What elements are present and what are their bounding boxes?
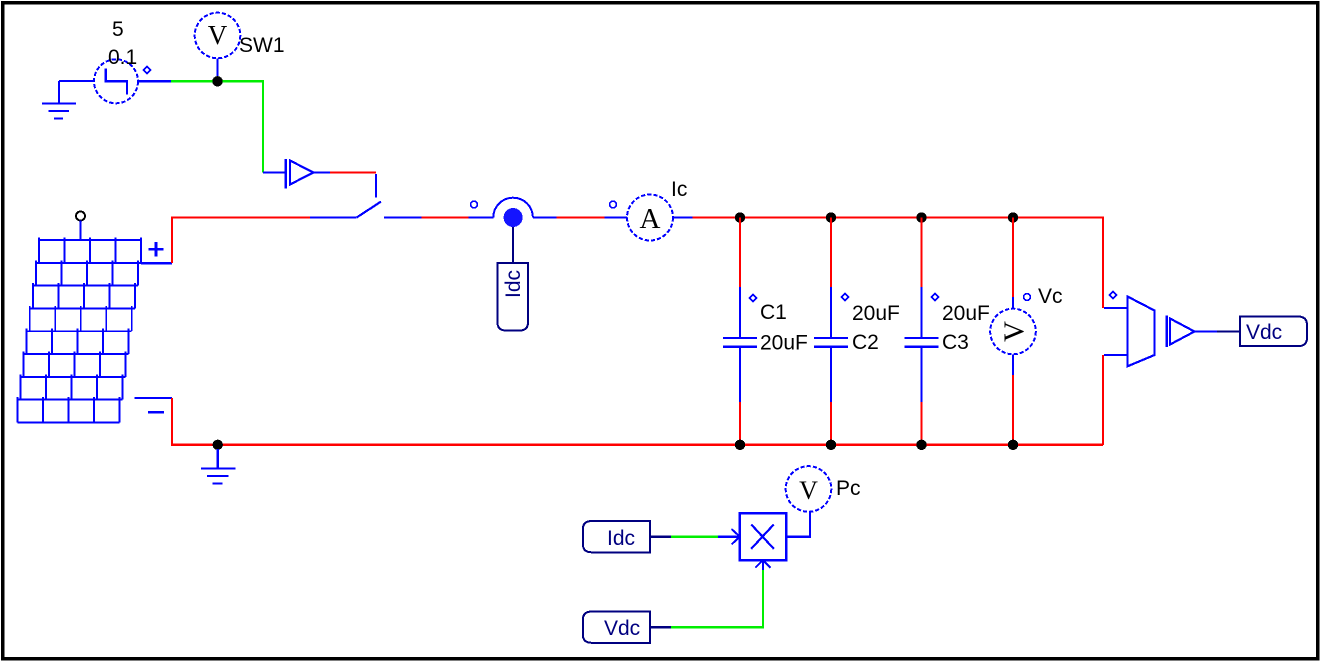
wire Vdc to multiplier green (671, 570, 763, 627)
wire: plus lead up to top rail (172, 218, 310, 264)
switch SW right contact lead (384, 216, 422, 218)
junction top C2 (826, 212, 836, 222)
sensor to Idc probe wire (512, 227, 514, 263)
green control wire from source (171, 81, 263, 172)
svg-text:20uF: 20uF (942, 302, 990, 325)
marker circle near ammeter (610, 201, 617, 208)
wire Idc to multiplier navy (650, 536, 671, 538)
svg-text:20uF: 20uF (852, 302, 900, 325)
junction ground (213, 440, 223, 450)
lead step source output (138, 80, 171, 82)
voltage sensor trapezoid (1104, 297, 1155, 367)
junction top Vc (1008, 212, 1018, 222)
marker diamond near sensor (1110, 292, 1117, 299)
capacitor C3 (905, 218, 939, 446)
junction node under SW1 meter (212, 76, 222, 86)
ammeter right lead (673, 216, 692, 218)
ground G1 (top-left) (42, 81, 76, 119)
marker circle near Vc (1024, 294, 1031, 301)
voltmeter Vc branch (990, 218, 1036, 446)
PV minus lead (135, 397, 172, 399)
current sensor right lead (533, 216, 557, 218)
wire sensor to ammeter (557, 216, 605, 218)
PV plus lead (141, 262, 172, 264)
wire Idc into multiplier blue (718, 536, 740, 538)
svg-text:Idc: Idc (607, 527, 635, 550)
minus sign (148, 411, 164, 414)
wire ground to step source (59, 80, 94, 82)
svg-text:Vdc: Vdc (1246, 321, 1282, 344)
Vdc source label box (583, 612, 650, 643)
arrow into multiplier left (732, 529, 740, 544)
PV solar panel array (17, 238, 141, 423)
voltmeter SW1 (195, 13, 241, 81)
svg-text:Vdc: Vdc (604, 617, 640, 640)
svg-text:Ic: Ic (671, 178, 687, 201)
wire Vdc into multiplier blue (762, 560, 764, 570)
buffer U1 (286, 159, 314, 188)
svg-text:Idc: Idc (502, 270, 525, 298)
junction bottom C3 (916, 440, 926, 450)
Idc current probe label box (497, 263, 528, 331)
svg-text:SW1: SW1 (239, 34, 285, 57)
wire Vdc to multiplier navy (650, 626, 671, 628)
Idc source label box (583, 521, 650, 552)
right riser bottom (1102, 355, 1104, 445)
junction bottom C2 (826, 440, 836, 450)
capacitor C1 (723, 218, 757, 446)
polarity diamond marker (144, 67, 151, 74)
wire Idc to multiplier green (671, 536, 718, 538)
arrow into multiplier bottom (755, 560, 770, 568)
buffer U2 output lead (1195, 330, 1218, 332)
buffer U1 output lead (313, 171, 330, 173)
switch SW gate lead (375, 174, 377, 198)
current sensor bump (493, 198, 533, 218)
svg-text:20uF: 20uF (760, 332, 808, 355)
Vdc output label box (1240, 317, 1307, 347)
bottom rail wire (172, 398, 1103, 445)
wire to buffer input (263, 171, 286, 173)
ground G2 (201, 449, 236, 484)
capacitor C2 (814, 218, 849, 446)
voltmeter Pc (786, 466, 832, 512)
switch SW left contact lead (310, 216, 357, 218)
multiplier block (740, 513, 786, 560)
junction top C3 (916, 212, 926, 222)
junction top C1 (735, 212, 745, 222)
current sensor left lead (469, 216, 494, 218)
ammeter Ic (627, 195, 673, 241)
marker circle near sensor (471, 201, 478, 208)
svg-text:V: V (799, 476, 818, 505)
svg-text:0.1: 0.1 (108, 46, 137, 69)
current sensor dot (504, 208, 523, 227)
svg-text:A: A (640, 203, 661, 235)
wire: top rail to right corner (692, 218, 1103, 309)
junction bottom C1 (735, 440, 745, 450)
svg-text:V: V (208, 20, 228, 50)
junction bottom Vc (1008, 440, 1018, 450)
PV panel terminal circle (76, 212, 85, 221)
switch SW blade (357, 202, 381, 218)
svg-text:C1: C1 (760, 301, 787, 324)
step voltage source VSTEP (94, 59, 138, 103)
wire to Vdc label (1217, 330, 1240, 332)
svg-text:C2: C2 (852, 331, 879, 354)
svg-text:V: V (999, 321, 1031, 342)
svg-text:Pc: Pc (836, 477, 861, 500)
ammeter left lead (604, 216, 627, 218)
wire: top rail switch to sensor (422, 216, 469, 218)
svg-text:Vc: Vc (1038, 285, 1063, 308)
plus sign (149, 242, 164, 257)
svg-text:C3: C3 (942, 331, 969, 354)
multiplier output wire (786, 511, 810, 536)
svg-text:5: 5 (112, 18, 124, 41)
wire buffer to switch gate (330, 171, 376, 173)
buffer U2 (1167, 316, 1195, 347)
PV panel stem (79, 221, 81, 241)
